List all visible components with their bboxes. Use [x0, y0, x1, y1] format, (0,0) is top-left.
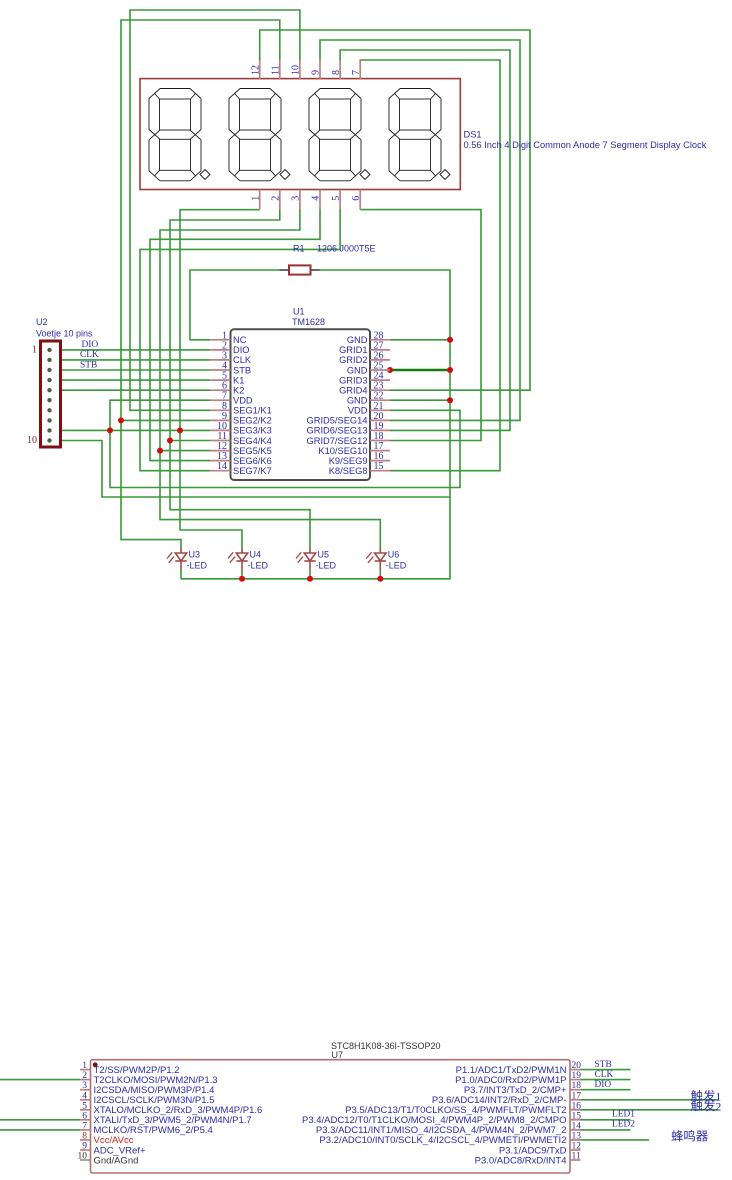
mcu U7 STC8H1K08-36I-TSSOP20 body [91, 1060, 571, 1173]
svg-text:U1: U1 [293, 307, 305, 317]
svg-text:2: 2 [715, 1099, 721, 1113]
svg-text:7: 7 [351, 70, 362, 75]
connector U2 pin dots [47, 348, 51, 443]
svg-text:9: 9 [311, 70, 322, 75]
wire U7 pin 7 to left edge [0, 1129, 80, 1131]
svg-text:15: 15 [572, 1111, 582, 1121]
svg-text:1: 1 [82, 1061, 87, 1071]
op-chip U1 TM1628 body [231, 329, 371, 480]
svg-text:DS1: DS1 [464, 130, 482, 140]
wire net GRID-E: DS1 pin 6 to U1 pin 18 [360, 210, 481, 441]
wire net CLK: U2 pin 2 to U1 pin 3 [50, 359, 211, 361]
svg-text:P3.0/ADC8/RxD/INT4: P3.0/ADC8/RxD/INT4 [475, 1155, 567, 1166]
net label trigger2 (chu-fa-2) at U7 pin 16 [691, 1099, 721, 1113]
wire LED U5 cathode to rail [309, 570, 311, 579]
svg-text:U2: U2 [36, 317, 48, 327]
wire net SEG5 branch to U1 pin 12 [160, 450, 210, 452]
svg-text:6: 6 [82, 1111, 87, 1121]
wire net LED1: U7 pin 15 [581, 1119, 631, 1121]
svg-text:Gnd/AGnd: Gnd/AGnd [94, 1155, 139, 1166]
U7 left pin stubs 1-10 [80, 1070, 91, 1160]
svg-text:2: 2 [82, 1071, 87, 1081]
svg-text:GRID4: GRID4 [339, 386, 367, 396]
svg-text:GND: GND [347, 396, 368, 406]
svg-text:14: 14 [217, 461, 227, 472]
svg-text:5: 5 [82, 1101, 87, 1111]
svg-text:5: 5 [331, 196, 342, 201]
display DS1 digit 2 seven-segment figure with decimal point [229, 89, 290, 181]
svg-text:2: 2 [271, 196, 282, 201]
display DS1 top pin numbers 12 11 10 9 8 7 [250, 65, 362, 75]
U1 left pin stubs 1-14 [210, 340, 231, 471]
svg-text:CLK: CLK [233, 355, 252, 365]
svg-text:11: 11 [271, 65, 282, 75]
wire net LED2: U7 pin 14 [581, 1129, 631, 1131]
wire net CLK2: U7 pin 19 [581, 1079, 631, 1081]
svg-text:14: 14 [572, 1121, 582, 1131]
junction GND at U1 pin 28 [447, 337, 453, 343]
junction SEG5 with U1 pin 12 row [157, 448, 163, 454]
svg-text:GRID7/SEG12: GRID7/SEG12 [307, 436, 368, 446]
wire net STB2: U7 pin 20 [581, 1069, 631, 1071]
LED U5 [296, 548, 316, 571]
display DS1 digit 4 seven-segment figure with decimal point [389, 89, 450, 181]
junction SEG4 with U1 pin 11 row [167, 438, 173, 444]
svg-text:-LED: -LED [316, 561, 337, 571]
display DS1 body [140, 79, 460, 190]
junction SEG2 with U1 pin 9 row [118, 417, 124, 423]
wire U1 pin 22 to GND rail [390, 399, 450, 401]
U1 left pin numbers 1-14 [217, 330, 227, 472]
svg-text:U7: U7 [332, 1050, 344, 1060]
U7 right pin stubs 20-11 [570, 1070, 581, 1160]
svg-text:VDD: VDD [233, 396, 253, 406]
wire U1 pin 28 to GND rail [390, 339, 450, 341]
LED U6 [366, 548, 386, 571]
svg-text:VDD: VDD [348, 406, 368, 416]
svg-text:U3: U3 [189, 550, 201, 560]
junction GND at U1 pin 22 [447, 397, 453, 403]
U1 left pin names [233, 335, 272, 476]
svg-text:10: 10 [27, 435, 37, 446]
svg-text:4: 4 [82, 1091, 87, 1101]
wire net SEG2 branch to U1 pin 9 [121, 419, 210, 421]
svg-text:STB: STB [80, 360, 97, 370]
wire net SEG1: DS1 pin 10 to U1 pin 8 [130, 10, 300, 410]
svg-text:K9/SEG9: K9/SEG9 [329, 456, 368, 466]
wire LED U4 cathode to rail [241, 570, 243, 579]
junction LED U4 cathode [239, 576, 245, 582]
svg-text:DIO: DIO [595, 1080, 612, 1090]
junction VDD with SEG3K3 row [107, 427, 113, 433]
svg-text:1: 1 [32, 345, 37, 356]
svg-text:12: 12 [250, 65, 261, 75]
svg-text:NC: NC [233, 335, 247, 345]
wire LED U3 cathode to rail [180, 570, 182, 579]
wire net STB: U2 pin 3 to U1 pin 4 [50, 369, 211, 371]
wire R1 left lead to U1 pin 1 [190, 270, 280, 340]
svg-text:8: 8 [82, 1131, 87, 1141]
wire net SEG2: DS1 pin 11 to LED U3 anode [121, 20, 280, 548]
junction LED U6 cathode [377, 576, 383, 582]
svg-text:R1: R1 [293, 244, 305, 254]
wire net trigger1: U7 pin 17 [581, 1099, 719, 1101]
U1 right pin stubs 15-28 [370, 340, 390, 471]
svg-text:20: 20 [572, 1061, 582, 1071]
svg-text:K1: K1 [233, 375, 244, 385]
LED U4 [228, 548, 248, 571]
svg-text:GRID6/SEG13: GRID6/SEG13 [307, 426, 368, 436]
svg-text:15: 15 [374, 461, 384, 472]
wire net GRID-D: DS1 pin 7 to U1 pin 15 [360, 60, 500, 471]
wire net SEG5: DS1 pin 3 to LED U6 anode [160, 210, 380, 548]
svg-text:DIO: DIO [233, 345, 250, 355]
svg-text:18: 18 [572, 1081, 582, 1091]
svg-text:4: 4 [311, 196, 322, 201]
junction LED U5 cathode [307, 576, 313, 582]
wire net K2: U2 pin 5 to U1 pin 6 [50, 389, 211, 391]
svg-text:GRID3: GRID3 [339, 375, 367, 385]
wire R1 right lead to GND rail and LED cathode rail [181, 270, 450, 579]
display DS1 bottom pin numbers 1-6 [250, 196, 362, 201]
wire LED U6 cathode to rail [379, 570, 381, 579]
resistor R1 body [289, 265, 311, 274]
display DS1 digit 1 seven-segment figure with decimal point [149, 89, 210, 181]
svg-text:3: 3 [82, 1081, 87, 1091]
wire net GND: U2 pin 10 down and right to GND rail [50, 441, 451, 498]
svg-text:K8/SEG8: K8/SEG8 [329, 466, 368, 476]
svg-text:13: 13 [572, 1131, 582, 1141]
svg-text:STB: STB [595, 1060, 612, 1070]
wire net SEG4 branch to U1 pin 11 [170, 440, 210, 442]
resistor R1 leads [280, 269, 320, 271]
svg-text:1: 1 [250, 196, 261, 201]
svg-text:LED1: LED1 [612, 1110, 635, 1120]
svg-text:9: 9 [82, 1142, 87, 1152]
svg-text:SEG2/K2: SEG2/K2 [233, 416, 272, 426]
svg-text:SEG5/K5: SEG5/K5 [233, 446, 272, 456]
svg-text:STC8H1K08-36I-TSSOP20: STC8H1K08-36I-TSSOP20 [331, 1041, 441, 1051]
svg-text:0.56 Inch 4 Digit Common Anode: 0.56 Inch 4 Digit Common Anode 7 Segment… [464, 140, 707, 150]
wire U7 pin 6 to left edge [0, 1119, 80, 1121]
U7 pin 1 marker dot [93, 1062, 98, 1067]
display DS1 digit 3 seven-segment figure with decimal point [309, 89, 370, 181]
junction SEG3 with row 10 [177, 427, 183, 433]
junction GND at U1 pin 25 [387, 367, 393, 373]
svg-text:19: 19 [572, 1071, 582, 1081]
svg-text:SEG4/K4: SEG4/K4 [233, 436, 272, 446]
U7 right pin names [302, 1065, 567, 1166]
svg-text:7: 7 [82, 1121, 87, 1131]
svg-text:1206 J000T5E: 1206 J000T5E [317, 244, 376, 254]
svg-text:12: 12 [572, 1142, 582, 1152]
svg-text:U6: U6 [388, 550, 400, 560]
wire net SEG3: DS1 pin 1 to LED U4 anode [180, 210, 260, 548]
U7 left pin names [94, 1065, 263, 1166]
junction GND rail mid [447, 367, 453, 373]
wire net SEG7: DS1 pin 5 to U1 pin 14 [140, 210, 340, 471]
wire net DIO: U2 pin 1 to U1 pin 2 [50, 349, 211, 351]
wire net buzzer: U7 pin 13 [581, 1139, 650, 1141]
wire net SEG6: DS1 pin 4 to U1 pin 13 [150, 210, 320, 461]
svg-text:SEG1/K1: SEG1/K1 [233, 406, 272, 416]
svg-text:-LED: -LED [386, 561, 407, 571]
connector U2 body Voetje 10 pins [41, 341, 61, 447]
svg-text:-LED: -LED [248, 561, 269, 571]
svg-text:GND: GND [347, 365, 368, 375]
wire net K1: U2 pin 4 to U1 pin 5 [50, 379, 211, 381]
wire net VDD: U1 pin 7 loop to U1 pin 21 [110, 400, 460, 487]
svg-text:GRID1: GRID1 [339, 345, 367, 355]
wire net SEG4: DS1 pin 2 to LED U5 anode [170, 210, 310, 548]
U1 right pin names [307, 335, 368, 476]
wire net trigger2: U7 pin 16 [581, 1109, 719, 1111]
display DS1 top pin stubs [260, 61, 361, 80]
svg-text:LED2: LED2 [612, 1120, 635, 1130]
U1 right pin numbers 28-15 [374, 330, 384, 472]
svg-text:K2: K2 [233, 386, 244, 396]
svg-text:8: 8 [331, 70, 342, 75]
svg-text:10: 10 [291, 65, 302, 75]
svg-text:10: 10 [78, 1152, 88, 1162]
svg-text:GND: GND [347, 335, 368, 345]
LED U3 [167, 548, 187, 571]
svg-text:SEG6/K6: SEG6/K6 [233, 456, 272, 466]
display DS1 bottom pin stubs [260, 190, 361, 210]
wire net GRID-B: DS1 pin 9 to U1 pin 20 [320, 40, 520, 420]
wire net DIO2: U7 pin 18 [581, 1089, 631, 1091]
svg-text:-LED: -LED [187, 561, 208, 571]
svg-text:GRID2: GRID2 [339, 355, 367, 365]
svg-text:U5: U5 [318, 550, 330, 560]
wire net SEG3K3: U2 pin 9 to U1 pin 10 [50, 429, 211, 431]
wire net GRID-C: DS1 pin 8 to U1 pin 19 [340, 50, 510, 430]
svg-text:11: 11 [572, 1152, 581, 1162]
svg-text:3: 3 [291, 196, 302, 201]
svg-text:6: 6 [351, 196, 362, 201]
svg-text:CLK: CLK [80, 350, 99, 360]
svg-text:TM1628: TM1628 [292, 317, 325, 327]
net label buzzer (feng-ming-qi) at U7 pin 13 [671, 1130, 707, 1141]
svg-text:CLK: CLK [595, 1070, 614, 1080]
svg-text:Voetje 10 pins: Voetje 10 pins [36, 329, 93, 339]
svg-text:K10/SEG10: K10/SEG10 [318, 446, 367, 456]
svg-text:17: 17 [572, 1091, 582, 1101]
svg-text:16: 16 [572, 1101, 582, 1111]
svg-text:STB: STB [233, 365, 251, 375]
U7 left pin numbers [78, 1061, 88, 1161]
svg-text:SEG7/K7: SEG7/K7 [233, 466, 272, 476]
wire net GRID-A: DS1 pin 12 to U1 pin 23 [260, 30, 530, 390]
U7 right pin numbers [572, 1061, 582, 1161]
wire U7 pin 2 to left edge [0, 1079, 80, 1081]
svg-text:GRID5/SEG14: GRID5/SEG14 [307, 416, 368, 426]
svg-text:U4: U4 [250, 550, 262, 560]
svg-text:SEG3/K3: SEG3/K3 [233, 426, 272, 436]
net label trigger1 (chu-fa-1) at U7 pin 17 [691, 1089, 721, 1103]
svg-text:DIO: DIO [82, 340, 99, 350]
wire GND heavy: U1 pin 25 to GND rail [390, 369, 450, 372]
